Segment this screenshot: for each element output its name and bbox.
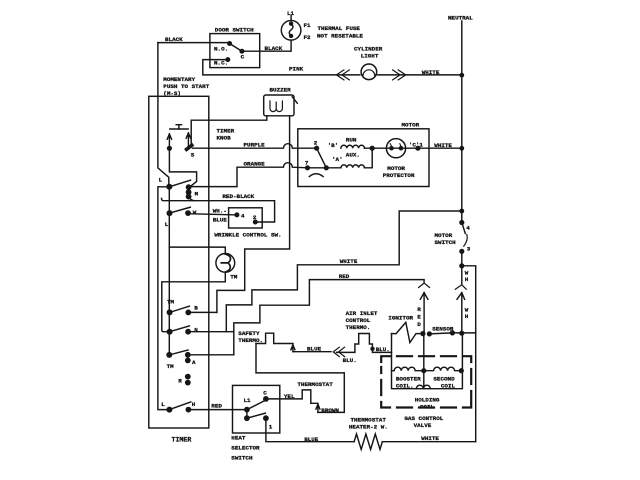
centrifugal arc symbol bbox=[309, 174, 323, 177]
svg-text:SECOND: SECOND bbox=[433, 375, 455, 382]
svg-text:BLUE: BLUE bbox=[213, 217, 228, 224]
svg-text:L: L bbox=[159, 177, 163, 184]
push-to-start left arrow dot bbox=[167, 146, 172, 151]
wrinkle control switch box bbox=[229, 208, 263, 228]
wrinkle sw terminal 4 dot bbox=[234, 212, 239, 217]
push-to-start right arrow bbox=[186, 133, 190, 146]
heat selector lower common dot bbox=[244, 415, 250, 421]
wire ORANGE timer M to motor 7 (hop over buzzer lead) bbox=[190, 163, 308, 187]
blade B bbox=[170, 306, 190, 312]
motor terminal 2 dot bbox=[314, 146, 319, 151]
contact A dots bbox=[185, 352, 191, 358]
contact C dot bbox=[239, 49, 244, 54]
svg-text:MOMENTARY: MOMENTARY bbox=[163, 76, 195, 83]
junction neutral-motor-white bbox=[459, 146, 464, 151]
svg-text:CONTROL: CONTROL bbox=[346, 317, 371, 324]
holding coil on bottom edge bbox=[416, 385, 430, 388]
thermal fuse element curve bbox=[289, 24, 293, 36]
svg-text:SWITCH: SWITCH bbox=[231, 454, 253, 461]
svg-text:H: H bbox=[465, 276, 469, 283]
junction neutral-pink bbox=[459, 73, 464, 78]
svg-text:4: 4 bbox=[466, 225, 470, 232]
wire RED-BLACK left tail bbox=[162, 198, 196, 200]
svg-text:H: H bbox=[465, 313, 469, 320]
contact W common dot bbox=[167, 210, 173, 216]
contact N.C. dot bbox=[225, 57, 230, 62]
wire L1 dots link bbox=[246, 410, 248, 419]
timer motor TM circle bbox=[216, 254, 235, 273]
push-to-start T glyph bbox=[176, 125, 181, 129]
motor RUN winding bbox=[341, 145, 365, 148]
blade H bbox=[169, 402, 190, 410]
svg-text:MOTOR: MOTOR bbox=[387, 165, 405, 172]
cylinder light filament arc bbox=[363, 70, 375, 76]
svg-text:WRINKLE CONTROL SW.: WRINKLE CONTROL SW. bbox=[214, 232, 281, 239]
contact W dot bbox=[185, 210, 191, 216]
svg-text:TM: TM bbox=[167, 299, 175, 306]
wire RED timer H to heat selector L1 bbox=[188, 409, 247, 411]
svg-text:VALVE: VALVE bbox=[414, 422, 432, 429]
contact N.O. dot bbox=[227, 41, 232, 46]
connector chevron RED bbox=[419, 283, 430, 288]
svg-text:M: M bbox=[195, 190, 199, 197]
svg-text:N.C.: N.C. bbox=[214, 59, 228, 66]
wire RED staircase timer A to ignitor connector bbox=[234, 280, 424, 355]
svg-text:R: R bbox=[417, 306, 421, 313]
wire WH lead below motor switch bbox=[461, 266, 463, 284]
svg-text:COIL.: COIL. bbox=[396, 382, 414, 389]
svg-text:SAFETY: SAFETY bbox=[238, 330, 260, 337]
svg-text:MOTOR: MOTOR bbox=[402, 122, 420, 129]
contact N dot bbox=[185, 329, 191, 335]
wire RED-BLACK from M to wrinkle sw 2 bbox=[189, 197, 275, 222]
connector arrow WH bbox=[457, 293, 465, 334]
svg-text:YEL: YEL bbox=[284, 393, 295, 400]
wire W to wrinkle sw 4 bbox=[188, 214, 237, 215]
svg-text:BLACK: BLACK bbox=[165, 36, 183, 43]
motor protector contacts bbox=[389, 146, 394, 151]
wire PINK from door N.C. to neutral bbox=[203, 60, 462, 75]
thermal fuse terminal dot F1 bbox=[289, 22, 293, 26]
heat selector blade lower bbox=[247, 413, 266, 418]
junction dot run/aux bbox=[370, 146, 375, 151]
motor terminal 7 dot bbox=[305, 165, 310, 170]
svg-text:NEUTRAL: NEUTRAL bbox=[448, 15, 473, 22]
svg-text:RED-BLACK: RED-BLACK bbox=[222, 193, 254, 200]
svg-text:THERMO.: THERMO. bbox=[346, 324, 371, 331]
svg-text:MOTOR: MOTOR bbox=[435, 232, 453, 239]
svg-text:THERMOSTAT: THERMOSTAT bbox=[297, 381, 333, 388]
contact M common dot bbox=[166, 184, 172, 190]
wire aux line 7 to coil bbox=[308, 167, 341, 169]
contact H dot bbox=[186, 407, 192, 413]
coil line bbox=[392, 367, 463, 371]
svg-text:R: R bbox=[178, 377, 182, 384]
wire WHITE heater to gas valve return bbox=[382, 441, 475, 443]
svg-text:'B': 'B' bbox=[328, 142, 339, 149]
svg-text:PROTECTOR: PROTECTOR bbox=[383, 172, 415, 179]
wire push-to-start output to M row bbox=[169, 148, 196, 186]
svg-text:HEAT: HEAT bbox=[231, 434, 246, 441]
svg-text:F1: F1 bbox=[304, 22, 312, 29]
svg-text:PUSH TO START: PUSH TO START bbox=[163, 83, 209, 90]
motor box bbox=[298, 129, 429, 187]
motor terminal C dot bbox=[415, 146, 420, 151]
svg-text:BLACK: BLACK bbox=[265, 45, 283, 52]
blade A bbox=[169, 350, 188, 355]
wire timer common bus bbox=[168, 187, 170, 355]
air inlet control thermo symbol bbox=[337, 334, 392, 353]
svg-text:SWITCH: SWITCH bbox=[435, 239, 457, 246]
svg-text:BUZZER: BUZZER bbox=[270, 86, 292, 93]
svg-text:BLU.: BLU. bbox=[376, 346, 390, 353]
motor AUX winding bbox=[341, 165, 365, 168]
svg-text:WH.-: WH.- bbox=[213, 208, 227, 215]
blade M bbox=[169, 180, 190, 187]
svg-text:'A': 'A' bbox=[332, 156, 343, 163]
svg-text:TIMER: TIMER bbox=[217, 128, 235, 135]
buzzer BZ box bbox=[264, 95, 294, 116]
contact B common dot bbox=[167, 309, 173, 315]
motor switch top dot bbox=[459, 220, 464, 225]
svg-text:BLUE: BLUE bbox=[304, 436, 319, 443]
wire BLUE safety thermo to connector bbox=[293, 351, 331, 353]
svg-text:AUX.: AUX. bbox=[346, 151, 360, 158]
wire buzzer left lead to timer S bbox=[191, 116, 267, 145]
wire TM motor top lead bbox=[169, 247, 225, 253]
contact A common dot bbox=[166, 352, 172, 358]
safety thermostat symbol bbox=[256, 333, 293, 343]
svg-text:B: B bbox=[194, 304, 198, 311]
svg-text:4: 4 bbox=[241, 213, 245, 220]
svg-text:WHITE: WHITE bbox=[434, 142, 452, 149]
gas control valve dashed box bbox=[381, 356, 471, 407]
wire neutral vertical bus bbox=[461, 21, 463, 266]
svg-text:2: 2 bbox=[314, 139, 318, 146]
svg-text:TM: TM bbox=[230, 273, 238, 280]
wire sensor junction down through coils bbox=[423, 334, 425, 389]
svg-text:PURPLE: PURPLE bbox=[244, 141, 266, 148]
svg-text:RED: RED bbox=[339, 273, 350, 280]
svg-text:D: D bbox=[417, 321, 421, 328]
svg-text:HEATER-2 W.: HEATER-2 W. bbox=[349, 424, 388, 431]
svg-text:BLU.: BLU. bbox=[343, 357, 357, 364]
svg-text:L: L bbox=[165, 221, 169, 228]
svg-text:TIMER: TIMER bbox=[172, 437, 192, 444]
junction below motor switch bbox=[459, 263, 464, 268]
contact S blob bbox=[187, 145, 192, 149]
connector chevron WH bbox=[455, 285, 466, 290]
svg-text:SELECTOR: SELECTOR bbox=[231, 444, 260, 451]
svg-text:S: S bbox=[191, 152, 195, 159]
svg-text:N.O.: N.O. bbox=[214, 46, 228, 53]
motor switch bottom dot bbox=[459, 249, 464, 254]
contact N common dot bbox=[167, 329, 173, 335]
svg-text:WHITE: WHITE bbox=[422, 69, 440, 76]
contact R dots bbox=[185, 374, 191, 380]
svg-text:COIL: COIL bbox=[441, 382, 456, 389]
connector chevrons left of cylinder light bbox=[336, 70, 349, 80]
timer TIMER box bbox=[149, 96, 209, 428]
wire aux winding up to junction bbox=[365, 148, 373, 168]
svg-text:IGNITOR: IGNITOR bbox=[388, 314, 413, 321]
svg-text:CYLINDER: CYLINDER bbox=[354, 45, 383, 52]
resistor thermostat heater zigzag bbox=[354, 434, 382, 449]
svg-text:2: 2 bbox=[253, 214, 257, 221]
svg-text:C: C bbox=[263, 390, 267, 397]
blade W bbox=[170, 207, 191, 213]
contact M dots bbox=[186, 184, 192, 190]
svg-text:GAS CONTROL: GAS CONTROL bbox=[404, 415, 443, 422]
svg-text:TM: TM bbox=[167, 363, 175, 370]
heat selector blade L1-C bbox=[247, 401, 264, 409]
wire BLUE heater return bottom line bbox=[266, 418, 354, 442]
wire PURPLE timer S to motor 2 (hop over buzzer lead) bbox=[193, 144, 317, 148]
door switch DS box bbox=[210, 34, 260, 68]
motor protector contact whiskers bbox=[390, 144, 401, 148]
sensor element bbox=[429, 333, 475, 334]
buzzer coil arcs bbox=[270, 101, 282, 112]
connector chevrons right of cylinder light bbox=[393, 70, 406, 80]
svg-text:LIGHT: LIGHT bbox=[361, 52, 379, 59]
svg-text:WHITE: WHITE bbox=[340, 258, 358, 265]
motor switch blade bbox=[462, 223, 466, 234]
svg-text:A: A bbox=[192, 359, 196, 366]
wire BLACK feed to door switch N.O. bbox=[158, 42, 230, 44]
svg-text:KNOB: KNOB bbox=[217, 135, 232, 142]
svg-text:WHITE: WHITE bbox=[421, 435, 439, 442]
wire WHITE staircase timer N to neutral bbox=[226, 211, 461, 332]
thermal fuse terminal dot F2 bbox=[289, 34, 293, 38]
svg-text:L: L bbox=[161, 401, 165, 408]
svg-text:3: 3 bbox=[467, 246, 471, 253]
igniter zigzag on assembly top edge bbox=[392, 322, 423, 342]
heat selector terminal 1 dot bbox=[263, 415, 269, 421]
junction dots red arrow / sensor bbox=[420, 331, 425, 336]
motor centrifugal blade 2 to aux bbox=[317, 148, 327, 168]
svg-text:SENSOR: SENSOR bbox=[432, 326, 454, 333]
svg-text:L1: L1 bbox=[244, 397, 252, 404]
safety thermo step with arrow bbox=[291, 344, 295, 352]
svg-text:PINK: PINK bbox=[289, 65, 304, 72]
connector arrow brown end bbox=[316, 404, 320, 412]
svg-text:C: C bbox=[241, 54, 245, 61]
wire line-A hot drop from door switch bbox=[158, 43, 170, 410]
wire buzzer right lead staircase to timer B bbox=[217, 116, 290, 313]
svg-text:W: W bbox=[193, 209, 197, 216]
blade landing dot bbox=[324, 165, 329, 170]
svg-text:H: H bbox=[192, 401, 196, 408]
svg-text:THERMOSTAT: THERMOSTAT bbox=[351, 416, 387, 423]
junction dot air inlet bbox=[370, 347, 374, 351]
gas valve assembly box bbox=[392, 333, 463, 389]
svg-text:BROWN: BROWN bbox=[321, 407, 339, 414]
wrinkle sw terminal 2 dot bbox=[253, 220, 258, 225]
push-to-start left arrow bbox=[167, 134, 171, 148]
svg-text:ORANGE: ORANGE bbox=[244, 160, 266, 167]
heat selector switch box bbox=[233, 385, 280, 433]
motor protector circle bbox=[386, 139, 405, 158]
cylinder light lamp circle bbox=[361, 64, 377, 80]
wire run winding through protector to neutral bbox=[365, 147, 462, 149]
motor switch arc bbox=[464, 235, 468, 247]
svg-text:AIR INLET: AIR INLET bbox=[346, 310, 378, 317]
svg-text:DOOR SWITCH: DOOR SWITCH bbox=[215, 27, 254, 34]
svg-text:1: 1 bbox=[269, 423, 273, 430]
svg-text:7: 7 bbox=[305, 159, 309, 166]
wire TM motor bottom lead to N common bbox=[162, 272, 226, 331]
svg-text:BOOSTER: BOOSTER bbox=[396, 375, 421, 382]
buzzer striker bbox=[292, 97, 297, 103]
svg-text:RED: RED bbox=[211, 402, 222, 409]
svg-text:E: E bbox=[417, 313, 421, 320]
heat selector L1 dot bbox=[244, 407, 250, 413]
wire white return branch to gas valve bottom bbox=[462, 266, 476, 442]
wire L1 stem bbox=[290, 16, 292, 21]
svg-text:NOT RESETABLE: NOT RESETABLE bbox=[317, 32, 363, 39]
svg-text:THERMAL FUSE: THERMAL FUSE bbox=[318, 25, 361, 32]
heat selector C dot bbox=[263, 396, 269, 402]
svg-text:RUN: RUN bbox=[346, 136, 357, 143]
second coil right dot bbox=[459, 368, 464, 373]
contact B dot bbox=[185, 310, 191, 316]
wire timer B contact to staircase bbox=[188, 311, 217, 313]
junction neutral-white-staircase bbox=[459, 209, 464, 214]
wire safety thermo left leg to thermostat loop bbox=[256, 344, 344, 413]
svg-text:HOLDING: HOLDING bbox=[415, 396, 440, 403]
wire BLACK door C to thermal fuse bbox=[242, 40, 291, 51]
svg-text:THERMO.: THERMO. bbox=[238, 337, 263, 344]
connector chevrons BLU bbox=[333, 347, 344, 356]
connector arrow RED bbox=[420, 293, 428, 334]
junction sensor/neutral-WH bbox=[459, 331, 464, 336]
junction booster/second dot bbox=[421, 368, 426, 373]
door switch blade N.O. to C bbox=[230, 44, 242, 52]
svg-text:F2: F2 bbox=[304, 34, 312, 41]
wire A contact to red staircase bbox=[188, 354, 234, 356]
wire N contact to white staircase bbox=[188, 331, 234, 333]
contact L common dot (heat row) bbox=[166, 407, 172, 413]
blade N bbox=[170, 326, 190, 332]
sensor right dot bbox=[450, 330, 455, 335]
operating thermostat symbol from C bbox=[266, 390, 318, 403]
timer motor TM inner glyph bbox=[221, 254, 230, 272]
push-to-start T bar bbox=[170, 128, 188, 130]
thermal fuse F circle bbox=[281, 21, 301, 41]
svg-text:BLUE: BLUE bbox=[307, 345, 322, 352]
